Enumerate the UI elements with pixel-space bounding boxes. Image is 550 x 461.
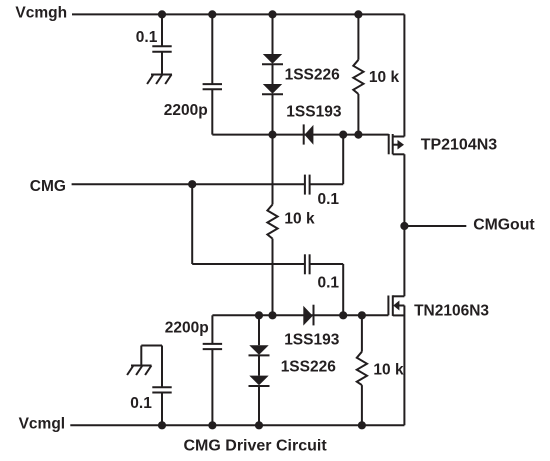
svg-text:TP2104N3: TP2104N3 xyxy=(421,136,498,153)
svg-text:CMG: CMG xyxy=(30,178,66,195)
svg-text:10 k: 10 k xyxy=(284,210,315,227)
svg-text:10 k: 10 k xyxy=(369,69,400,86)
svg-text:10 k: 10 k xyxy=(373,361,404,378)
svg-text:1SS193: 1SS193 xyxy=(284,332,340,349)
svg-text:0.1: 0.1 xyxy=(318,191,340,208)
svg-text:Vcmgh: Vcmgh xyxy=(15,4,67,21)
svg-text:CMG Driver Circuit: CMG Driver Circuit xyxy=(184,438,328,455)
svg-text:0.1: 0.1 xyxy=(318,274,340,291)
svg-text:CMGout: CMGout xyxy=(473,217,535,234)
svg-text:1SS226: 1SS226 xyxy=(281,359,337,376)
svg-text:0.1: 0.1 xyxy=(130,395,152,412)
svg-text:2200p: 2200p xyxy=(164,102,208,119)
svg-text:TN2106N3: TN2106N3 xyxy=(414,303,489,320)
svg-text:1SS226: 1SS226 xyxy=(285,67,341,84)
svg-text:1SS193: 1SS193 xyxy=(286,104,342,121)
svg-text:0.1: 0.1 xyxy=(136,29,158,46)
svg-text:2200p: 2200p xyxy=(165,319,209,336)
svg-text:Vcmgl: Vcmgl xyxy=(19,416,66,433)
